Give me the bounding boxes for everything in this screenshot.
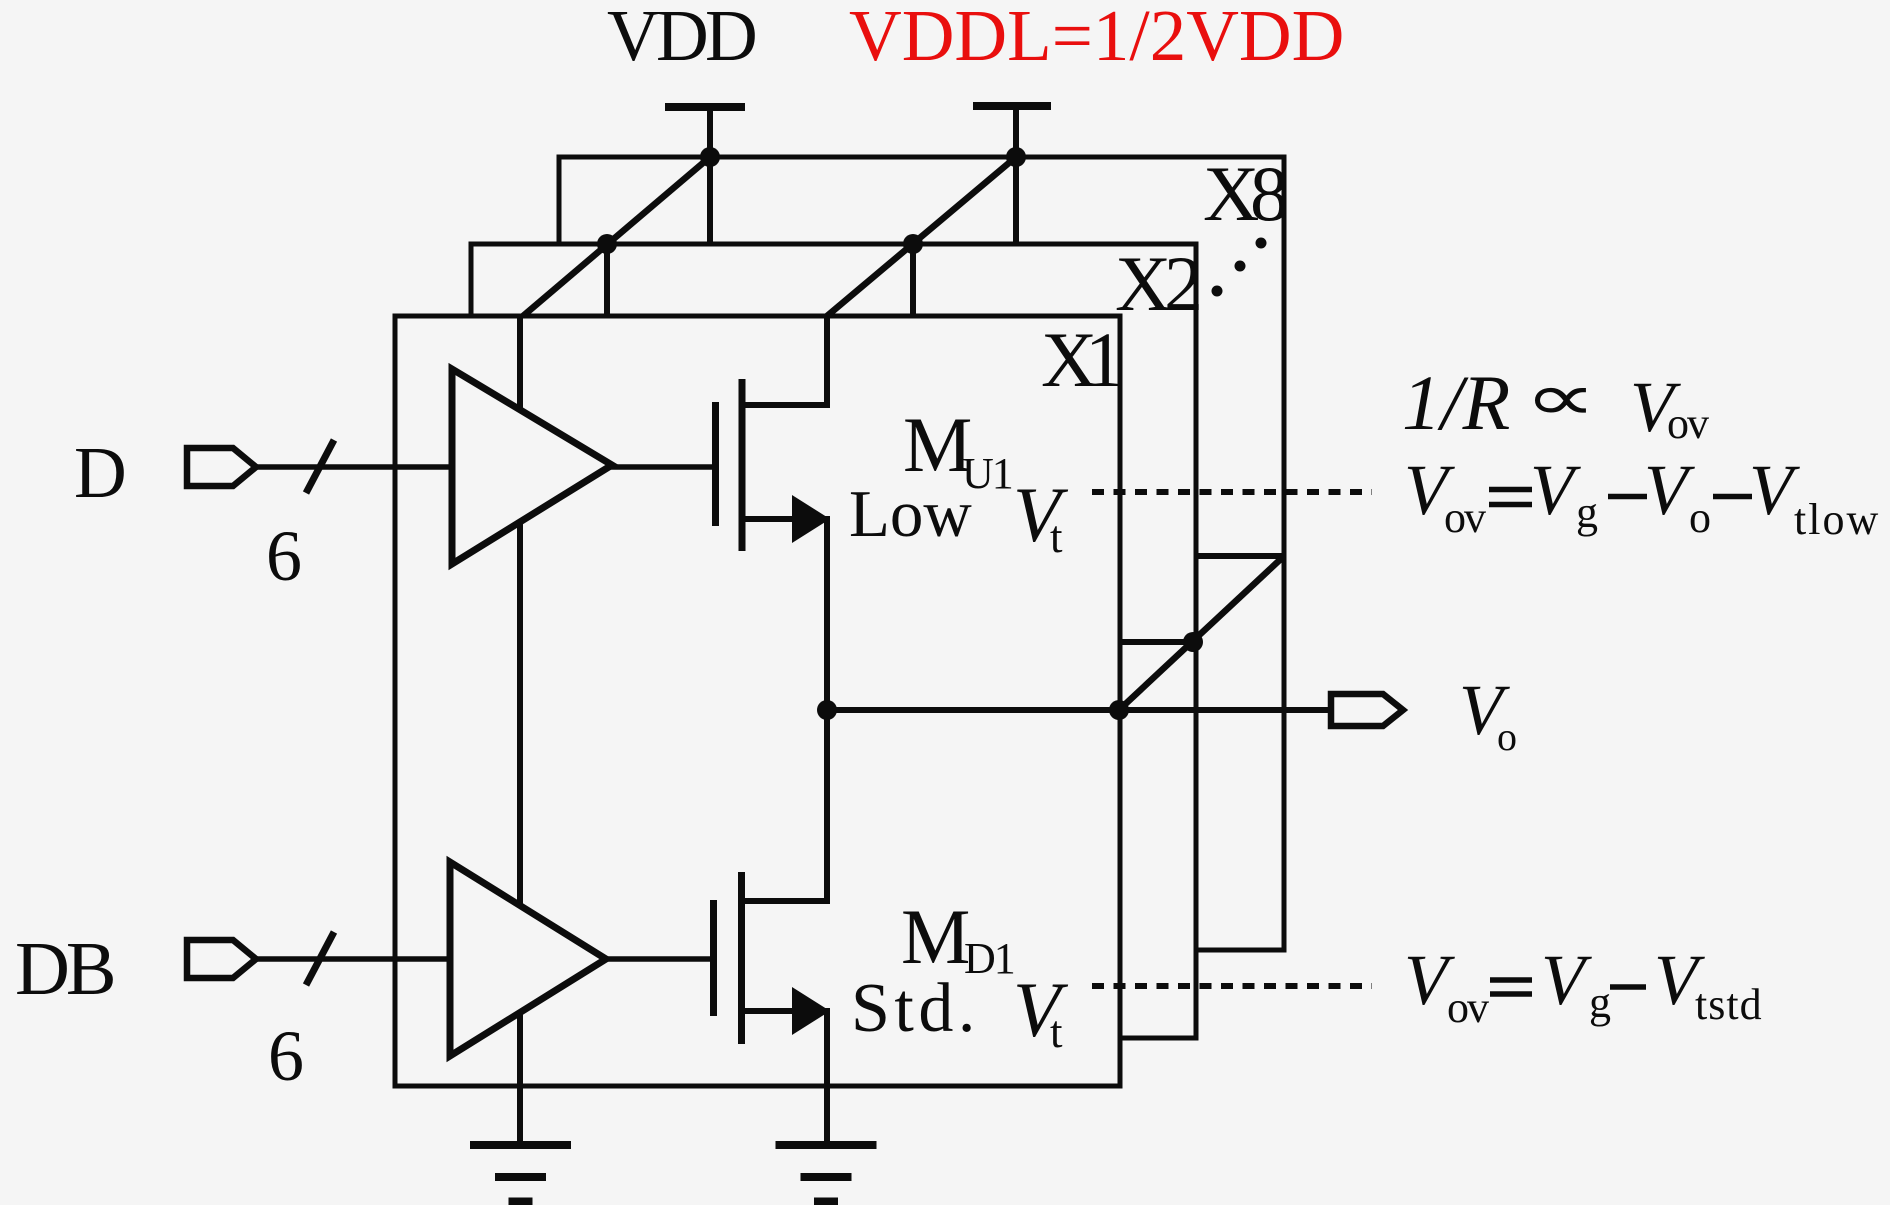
wire VDD stub inside X2 (604, 244, 610, 316)
svg-text:o: o (1689, 493, 1711, 542)
svg-text:tlow: tlow (1794, 495, 1880, 544)
VDDL supply T-bar (973, 102, 1051, 110)
svg-text:g: g (1589, 978, 1611, 1027)
ground symbol right (776, 1145, 877, 1202)
svg-text:VDD: VDD (607, 0, 755, 76)
svg-text:VDDL=1/2VDD: VDDL=1/2VDD (849, 0, 1344, 76)
VDD supply T-bar (665, 103, 745, 111)
svg-text:Std.: Std. (851, 970, 980, 1047)
transistor MD1 source arrow (792, 987, 830, 1035)
svg-text:V: V (1530, 450, 1581, 530)
instance box X1 (395, 316, 1120, 1086)
transistor MD1 drain wire (742, 707, 827, 901)
svg-text:8: 8 (1250, 150, 1289, 237)
wire X2 output stub (1120, 639, 1196, 645)
svg-text:t: t (1050, 1007, 1063, 1057)
node VDDL at X8 top (1006, 147, 1026, 167)
bus slash on D (306, 440, 334, 493)
bus slash on DB (306, 932, 334, 985)
node output at X2 edge (1183, 632, 1203, 652)
svg-text:V: V (1749, 450, 1800, 530)
svg-text:tstd: tstd (1695, 980, 1763, 1029)
VDD supply stem (707, 107, 713, 160)
svg-text:1/R: 1/R (1402, 359, 1510, 446)
svg-text:ov: ov (1667, 399, 1709, 448)
wire input DB (256, 956, 714, 962)
svg-text:Low: Low (849, 477, 972, 551)
svg-text:6: 6 (268, 1016, 304, 1096)
node VDD at X2 top (597, 234, 617, 254)
svg-text:M: M (901, 893, 970, 980)
svg-text:2: 2 (1164, 240, 1203, 327)
transistor MU1 channel bar (739, 379, 746, 551)
dashed callout line for MD1 (1092, 983, 1372, 989)
node VDD at X8 top (700, 147, 720, 167)
dashed callout line for MU1 (1092, 489, 1372, 495)
wire VDD rail in X1 down to ground (517, 316, 523, 1145)
buffer U1 (top driver) (452, 369, 612, 564)
wire VDDL stub inside X2 (910, 244, 916, 316)
svg-text:o: o (1497, 714, 1517, 759)
svg-text:X: X (1115, 240, 1171, 327)
wire VDDL diagonal across instances (827, 157, 1016, 316)
svg-text:1: 1 (1085, 316, 1124, 403)
transistor MU1 source wire (742, 519, 827, 713)
VDDL supply stem (1013, 106, 1019, 160)
svg-text:DB: DB (15, 927, 113, 1011)
wire VDD diagonal across instances (523, 157, 710, 316)
wire VDD stub inside X8 (707, 157, 713, 244)
svg-text:6: 6 (266, 516, 302, 596)
wire output Vo (824, 707, 1330, 713)
transistor MD1 gate bar (710, 900, 717, 1016)
buffer U2 (bottom driver) (450, 862, 606, 1056)
port DB (187, 940, 256, 978)
port Vo (1331, 694, 1403, 726)
transistor MU1 drain wire (742, 316, 827, 405)
node output at X1 edge (1109, 700, 1129, 720)
svg-text:g: g (1576, 488, 1598, 537)
port D (187, 448, 256, 486)
svg-text:ov: ov (1444, 493, 1486, 542)
transistor MD1 source wire (742, 1011, 827, 1145)
svg-text:V: V (1644, 450, 1695, 530)
instance box X2 (471, 244, 1196, 1038)
node output junction at MU1/MD1 (817, 700, 837, 720)
ground symbol left (470, 1145, 571, 1202)
instance box X8 (559, 157, 1284, 950)
svg-text:V: V (1541, 940, 1592, 1020)
svg-text:ov: ov (1447, 983, 1489, 1032)
node VDDL at X2 top (903, 234, 923, 254)
svg-text:∝: ∝ (1524, 361, 1597, 435)
wire X8 output stub (1196, 553, 1284, 559)
transistor MU1 source arrow (792, 495, 830, 543)
wire VDDL stub inside X8 (1013, 157, 1019, 244)
svg-text:D: D (74, 432, 127, 513)
transistor MU1 gate bar (712, 402, 719, 526)
svg-text:t: t (1050, 512, 1063, 562)
transistor MD1 channel bar (738, 872, 745, 1044)
wire input D (256, 464, 714, 470)
wire output diagonal across instances (1119, 556, 1284, 710)
dots ellipsis between X2 and X8 (1212, 238, 1267, 297)
